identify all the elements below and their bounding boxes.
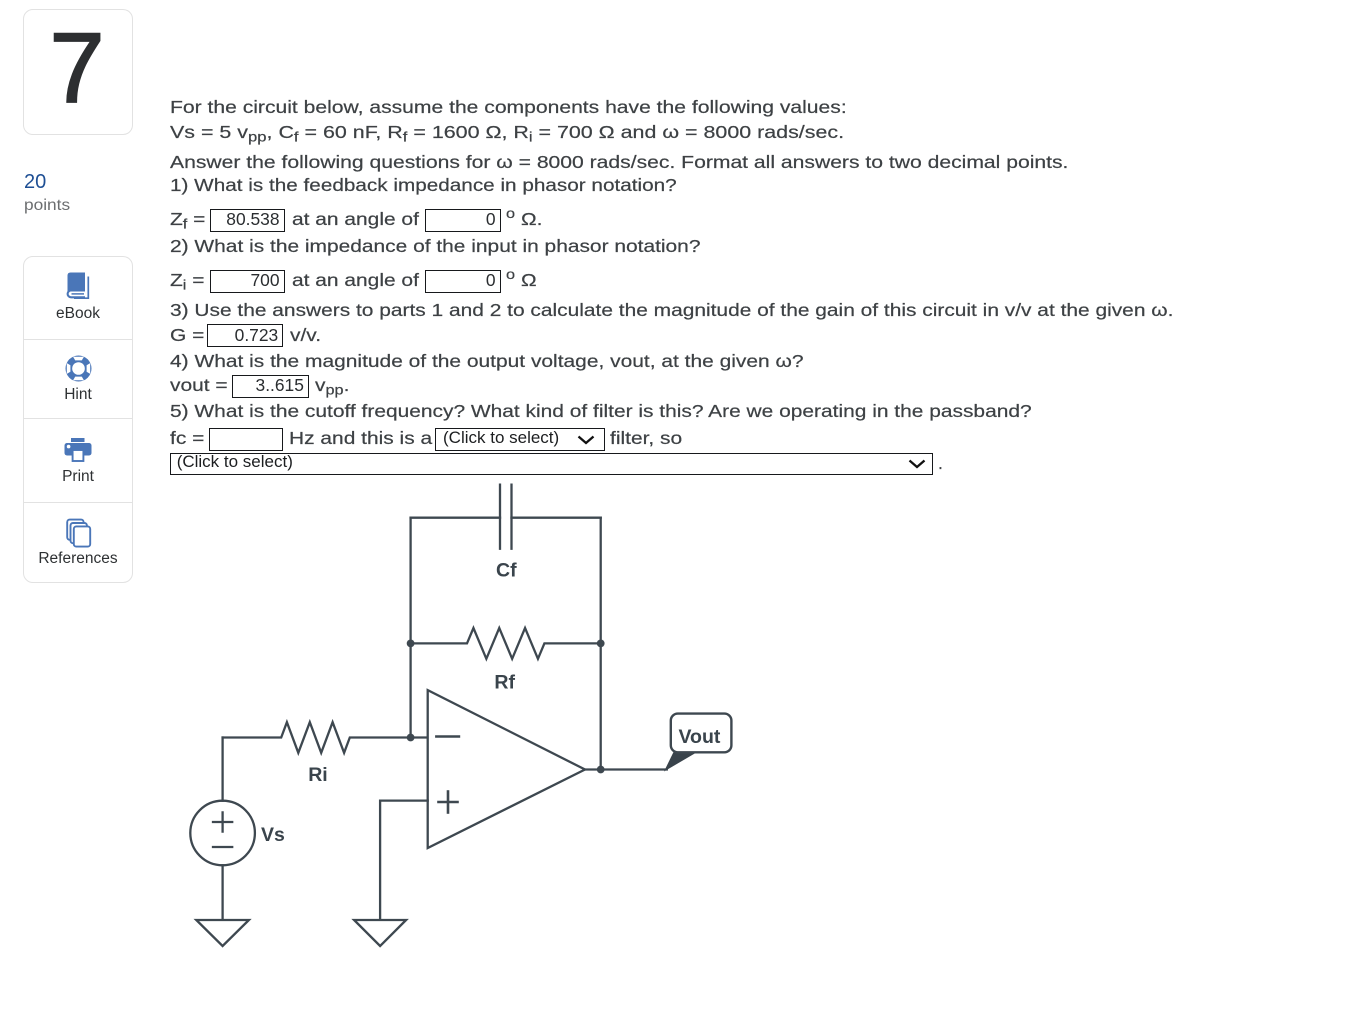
wire non-inverting input bbox=[380, 801, 428, 920]
ground (source) bbox=[196, 920, 249, 946]
voltage source Vs bbox=[190, 801, 255, 866]
Print icon bbox=[64, 437, 92, 463]
row Zf bbox=[170, 209, 205, 229]
svg-text:Vs: Vs bbox=[261, 824, 285, 846]
svg-text:Vout: Vout bbox=[679, 726, 721, 748]
row Zi bbox=[170, 270, 204, 290]
circuit schematic bbox=[185, 470, 745, 970]
wire Vs bottom bbox=[221, 865, 223, 920]
svg-text:Ri: Ri bbox=[308, 764, 328, 786]
svg-text:Rf: Rf bbox=[494, 672, 515, 694]
row fc bbox=[170, 428, 204, 448]
resistor Rf bbox=[411, 628, 601, 659]
References icon bbox=[64, 518, 92, 550]
row vout bbox=[170, 375, 228, 395]
wire left rail vertical bbox=[409, 518, 411, 738]
row G bbox=[170, 325, 204, 345]
Vout bubble tail bbox=[664, 751, 699, 772]
points bbox=[24, 172, 46, 192]
eBook icon bbox=[64, 271, 92, 300]
question number box bbox=[23, 9, 133, 135]
problem text lines bbox=[170, 97, 847, 117]
wire output bbox=[585, 768, 667, 770]
plus sign in source bbox=[213, 821, 232, 823]
junction node output bbox=[597, 766, 605, 774]
capacitor C f plates bbox=[499, 485, 501, 549]
junction node left (Rf row) bbox=[407, 640, 415, 648]
ground (non-inverting input) bbox=[354, 920, 406, 946]
wire top-right horizontal (Cf branch right) bbox=[512, 517, 601, 519]
svg-text:Cf: Cf bbox=[496, 559, 517, 581]
junction node inverting input bbox=[407, 734, 415, 742]
sidebar buttons bbox=[23, 256, 133, 583]
Vout bubble bbox=[671, 714, 732, 753]
wire Vs top bbox=[221, 738, 223, 801]
plus sign (non-inverting input) bbox=[439, 801, 458, 804]
junction node right (Rf row) bbox=[597, 640, 605, 648]
resistor Ri bbox=[223, 722, 428, 753]
wire right rail vertical bbox=[600, 518, 602, 770]
op-amp U1 bbox=[428, 690, 585, 848]
wire top-left horizontal (Cf branch left) bbox=[411, 517, 500, 519]
row long dropdown bbox=[170, 453, 933, 476]
minus sign (inverting input) bbox=[436, 735, 459, 738]
Hint icon bbox=[65, 355, 92, 382]
minus sign in source bbox=[213, 846, 232, 848]
dropdown small bbox=[435, 428, 605, 451]
